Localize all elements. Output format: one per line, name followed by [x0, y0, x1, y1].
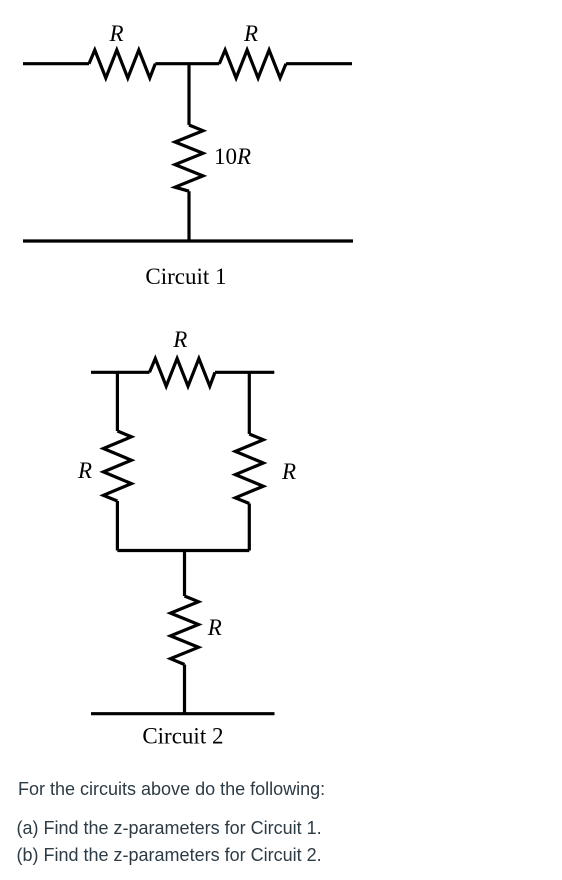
wire: circuit 2 top rail left stub	[91, 371, 150, 374]
svg-text:10R: 10R	[214, 144, 251, 169]
wire: circuit 2 loop bottom rail	[117, 549, 249, 552]
resistor R2 (top-right R, circuit 1)	[219, 50, 286, 78]
wire: circuit 1 top-right lead	[286, 62, 352, 65]
resistor 10R (vertical, circuit 1)	[175, 125, 203, 191]
wire: circuit 2 left vertical lower lead	[116, 501, 119, 551]
wire: circuit 2 right vertical lower lead	[248, 504, 251, 551]
resistor R1 (top-left R, circuit 1)	[89, 50, 155, 78]
wire: circuit 1 vertical from T-junction	[187, 64, 190, 125]
wire: circuit 2 bottom ground rail	[91, 712, 275, 715]
svg-text:R: R	[207, 615, 222, 640]
prompt text line (b)	[17, 845, 322, 866]
svg-text:R: R	[172, 327, 187, 352]
svg-text:R: R	[77, 458, 92, 483]
wire: circuit 2 top rail right stub	[215, 371, 274, 374]
wire: circuit 2 center vertical upper lead	[183, 551, 186, 597]
svg-text:R: R	[281, 459, 296, 484]
svg-text:R: R	[243, 21, 258, 46]
wire: circuit 1 top-middle segment	[155, 62, 219, 65]
wire: circuit 2 left vertical upper lead	[116, 372, 119, 431]
wire: circuit 1 vertical lower lead	[187, 191, 190, 241]
resistor R (left vertical, circuit 2)	[103, 431, 131, 501]
resistor R (bottom vertical, circuit 2)	[171, 596, 199, 665]
svg-text:Circuit 2: Circuit 2	[142, 723, 223, 748]
svg-text:R: R	[108, 21, 123, 46]
resistor R (top, circuit 2)	[150, 359, 216, 387]
wire: circuit 2 center vertical lower lead	[183, 665, 186, 714]
prompt text line 1	[18, 779, 325, 800]
wire: circuit 2 right vertical upper lead	[248, 372, 251, 434]
resistor R (right vertical, circuit 2)	[235, 434, 263, 504]
svg-text:Circuit 1: Circuit 1	[145, 264, 226, 289]
wire: circuit 1 bottom rail	[23, 239, 353, 242]
wire: circuit 1 top-left lead	[23, 62, 89, 65]
prompt text line (a)	[17, 818, 322, 839]
